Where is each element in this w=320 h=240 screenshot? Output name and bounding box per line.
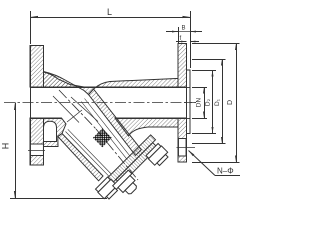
right flange lower block <box>178 118 187 162</box>
dimension f line + arrows <box>176 41 187 43</box>
branch axis centerline <box>59 90 96 129</box>
bore top wall line <box>30 87 190 89</box>
strainer seat lines <box>53 96 79 123</box>
right flange raised face <box>187 70 191 134</box>
dimension L line <box>31 17 191 19</box>
svg-text:D₁: D₁ <box>214 98 221 106</box>
bore bottom wall line right segment <box>115 118 190 120</box>
dimension D2 line <box>212 70 214 134</box>
left flange lower block <box>30 118 44 165</box>
svg-text:D₂: D₂ <box>205 98 212 106</box>
drain plug <box>113 170 132 189</box>
extension line raised face bottom (D2) <box>192 133 216 135</box>
right flange upper block <box>178 44 187 88</box>
left flange face <box>30 46 32 166</box>
extension line flange OD top (D) <box>192 43 240 45</box>
right flange face <box>186 44 188 163</box>
horizontal centerline <box>4 102 196 104</box>
centerline stub through raised face <box>184 102 196 104</box>
extension line raised face top (D2) <box>192 70 216 72</box>
svg-text:B: B <box>182 26 186 32</box>
extension line bolt circle bottom (D1) <box>192 143 226 145</box>
bore bottom wall line left segment <box>30 118 62 120</box>
branch upper wall <box>89 89 142 155</box>
body top wall <box>44 72 179 95</box>
dimension DN line <box>204 87 206 118</box>
left flange upper block <box>30 46 84 88</box>
svg-text:DN: DN <box>196 98 203 108</box>
label N-phi <box>215 175 240 177</box>
dimension b line + arrows <box>166 31 178 33</box>
bore line stubs through raised face <box>187 87 191 89</box>
dimension D line <box>236 44 238 163</box>
dimension b extension line <box>178 27 180 43</box>
hub arch cutout <box>44 121 57 141</box>
svg-text:H: H <box>1 143 11 150</box>
extension line flange OD bottom (D) <box>192 162 240 164</box>
extension line bolt circle top (D1) <box>192 59 226 61</box>
body bottom wall right <box>115 118 190 136</box>
dimension H line <box>15 103 17 199</box>
leader N-phi arrow <box>189 151 216 176</box>
svg-text:N–Φ: N–Φ <box>217 167 234 176</box>
dimension L extension line right <box>190 11 192 68</box>
branch cover plate <box>116 143 158 185</box>
body lower hub <box>44 118 67 147</box>
extension line bore top (DN) <box>192 87 207 89</box>
extension line bore bottom (DN) <box>192 118 207 120</box>
cover bolt upper <box>146 144 161 159</box>
svg-text:L: L <box>107 7 112 17</box>
branch end flange <box>108 135 155 182</box>
dimension H bottom extension line <box>10 198 107 200</box>
left flange bolt hole <box>30 144 43 156</box>
dimension D1 line <box>222 59 224 144</box>
dimension L extension line left <box>30 11 32 44</box>
strainer basket wall lines <box>66 132 110 177</box>
mesh screen <box>93 128 112 147</box>
basket rim line <box>67 110 82 122</box>
svg-text:D: D <box>227 100 234 105</box>
cover bolt lower <box>96 177 111 192</box>
right flange bolt hole <box>178 139 186 157</box>
branch lower wall <box>58 134 103 181</box>
